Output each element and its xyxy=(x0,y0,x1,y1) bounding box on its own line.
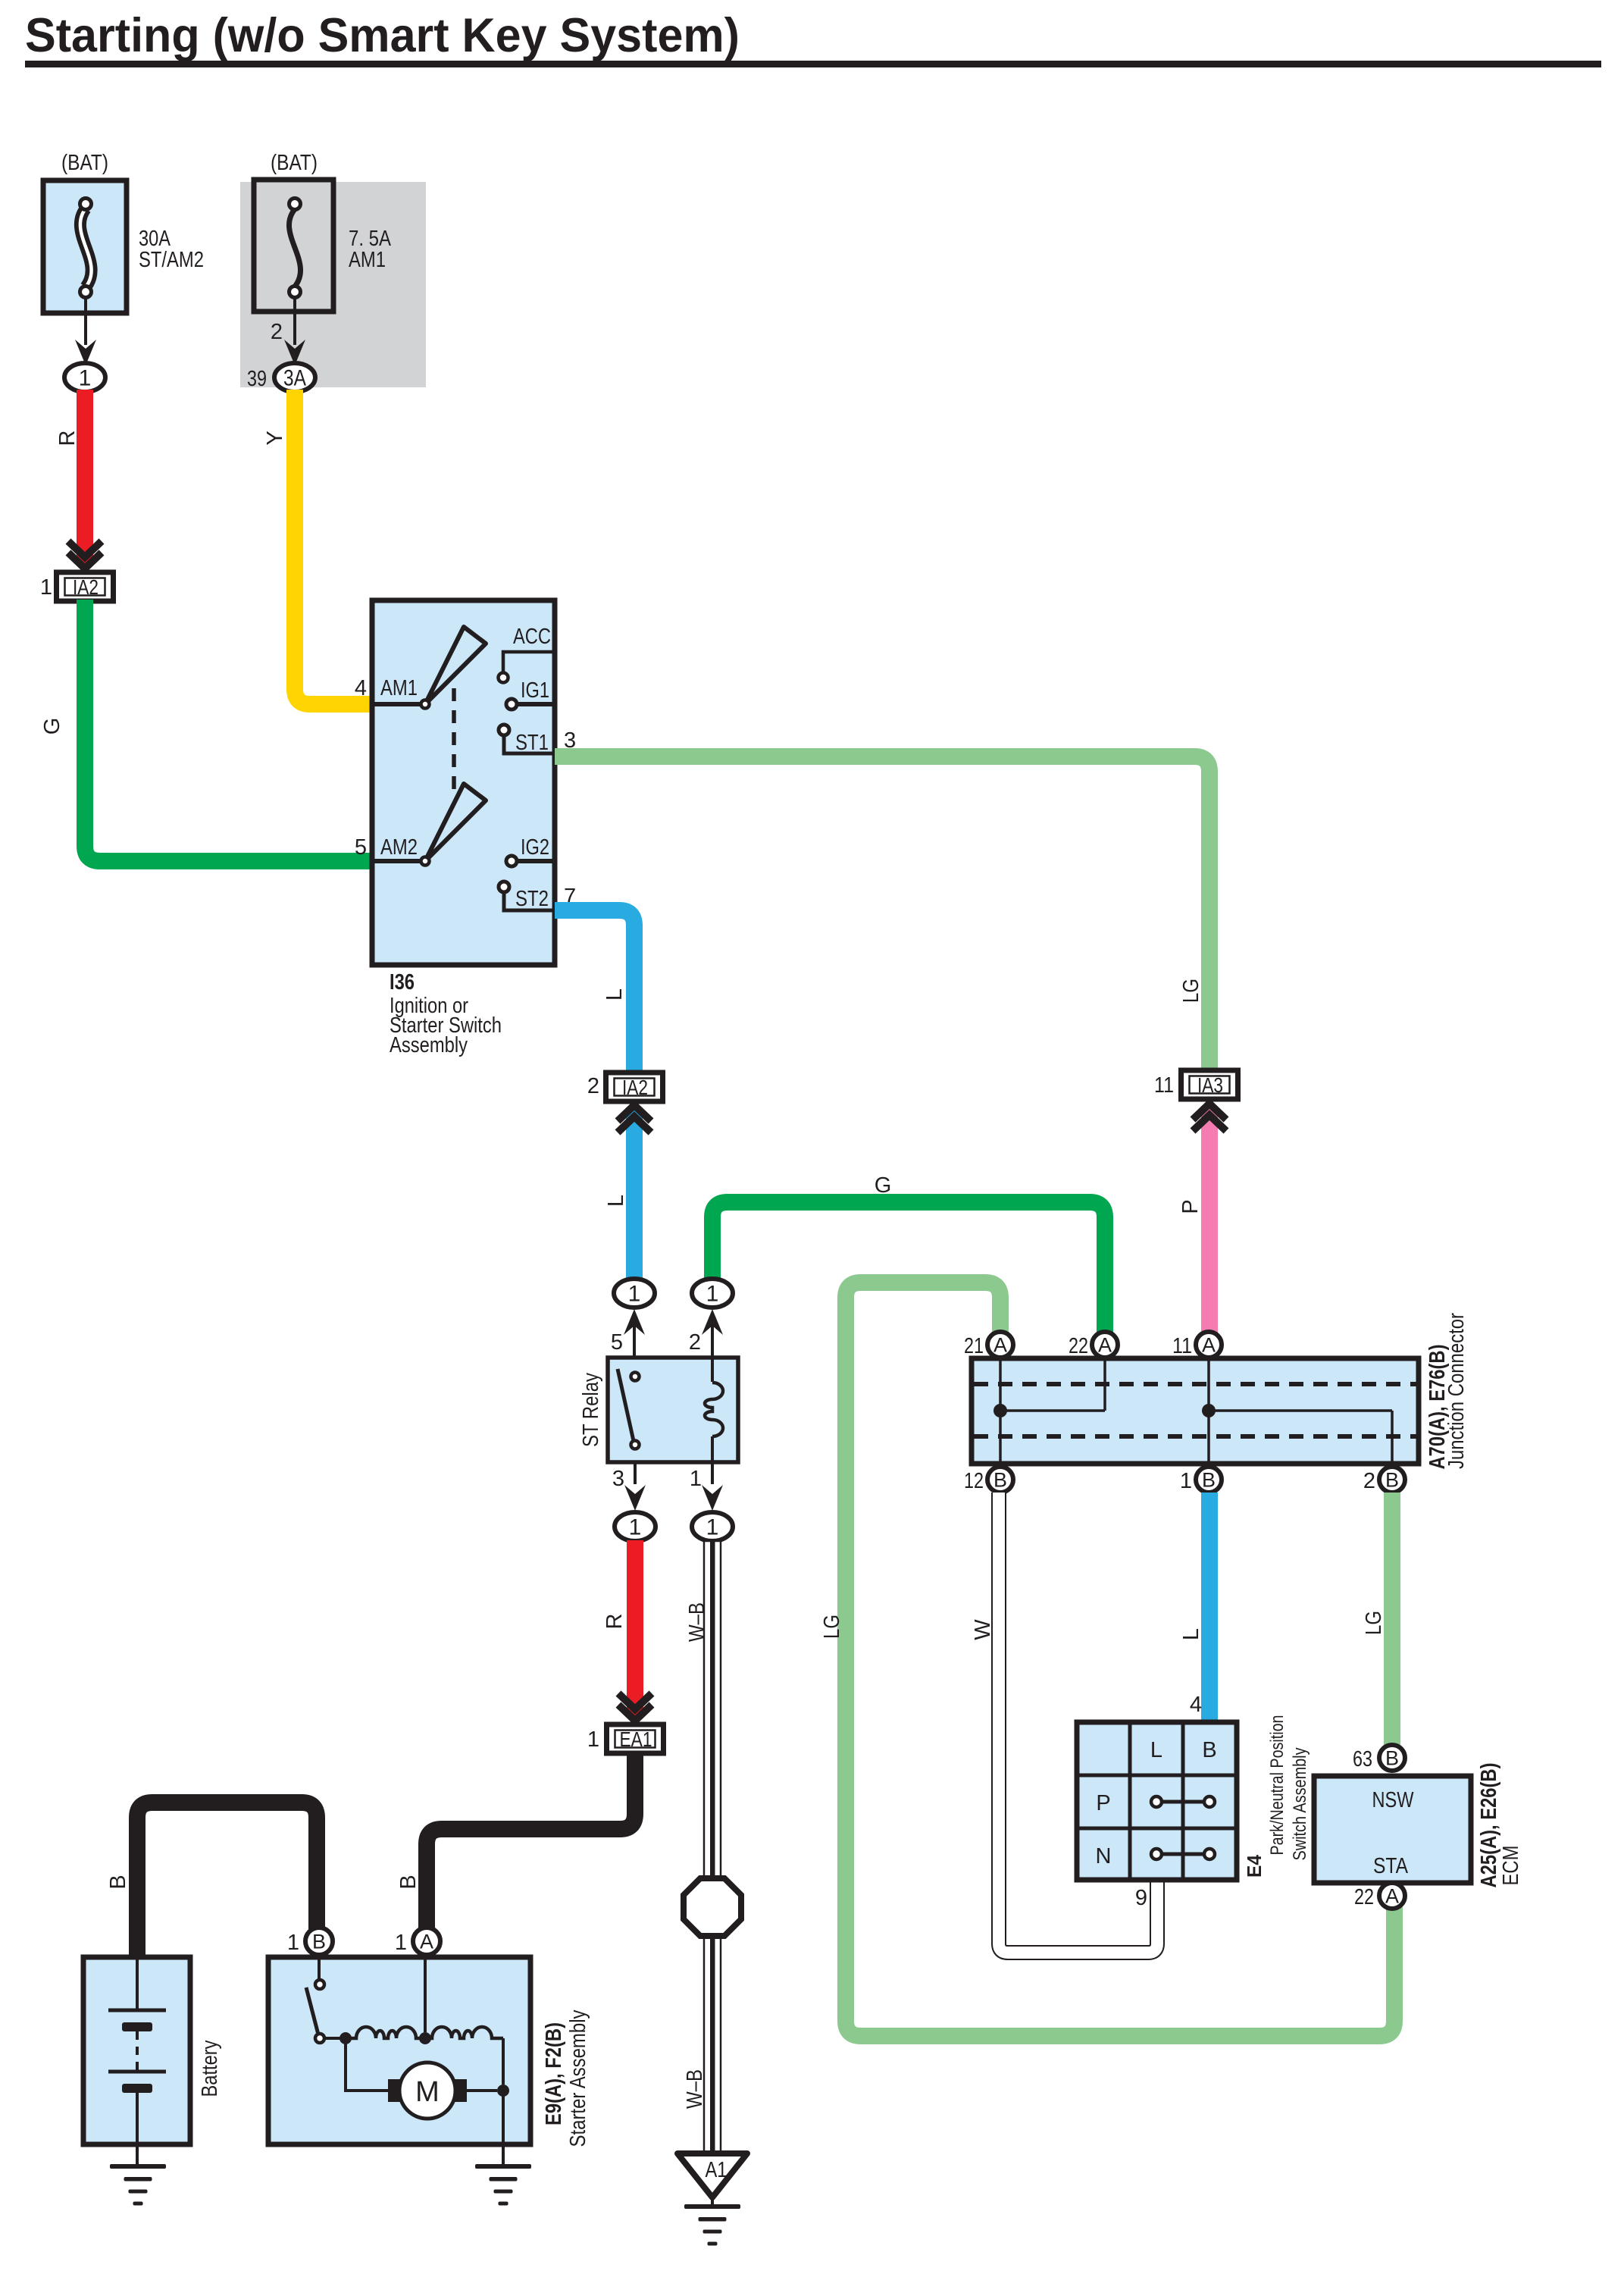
svg-text:22: 22 xyxy=(1354,1885,1374,1909)
svg-text:B: B xyxy=(396,1875,421,1889)
svg-text:E4: E4 xyxy=(1243,1855,1266,1878)
svg-text:A: A xyxy=(993,1334,1007,1357)
svg-text:L: L xyxy=(1179,1628,1203,1640)
svg-text:AM1: AM1 xyxy=(349,248,386,272)
svg-text:Junction Connector: Junction Connector xyxy=(1444,1313,1469,1469)
svg-text:1: 1 xyxy=(40,575,52,600)
svg-text:P: P xyxy=(1178,1199,1203,1214)
svg-text:21: 21 xyxy=(964,1334,984,1358)
svg-text:M: M xyxy=(415,2076,440,2108)
svg-text:2: 2 xyxy=(1363,1469,1375,1493)
svg-text:R: R xyxy=(55,431,80,446)
svg-text:B: B xyxy=(106,1875,130,1889)
svg-text:Starting (w/o Smart Key System: Starting (w/o Smart Key System) xyxy=(25,9,740,62)
svg-text:3: 3 xyxy=(612,1467,624,1491)
svg-text:A: A xyxy=(1098,1334,1112,1357)
svg-text:11: 11 xyxy=(1172,1334,1192,1358)
svg-text:LG: LG xyxy=(820,1615,844,1639)
svg-text:ST Relay: ST Relay xyxy=(579,1373,603,1447)
svg-text:AM1: AM1 xyxy=(380,676,418,700)
svg-text:P: P xyxy=(1096,1791,1110,1815)
svg-text:E9(A), F2(B): E9(A), F2(B) xyxy=(542,2022,566,2125)
svg-text:12: 12 xyxy=(964,1469,984,1493)
svg-text:Switch Assembly: Switch Assembly xyxy=(1290,1748,1310,1861)
svg-text:Y: Y xyxy=(263,431,287,445)
svg-text:(BAT): (BAT) xyxy=(271,151,318,175)
svg-text:A: A xyxy=(1385,1885,1399,1908)
svg-text:G: G xyxy=(875,1173,892,1198)
svg-text:Starter Assembly: Starter Assembly xyxy=(566,2009,590,2147)
svg-text:1: 1 xyxy=(79,366,92,391)
svg-text:39: 39 xyxy=(247,367,267,391)
svg-text:5: 5 xyxy=(355,835,367,860)
svg-text:IA2: IA2 xyxy=(73,575,99,599)
svg-text:L: L xyxy=(602,988,627,1001)
svg-text:STA: STA xyxy=(1373,1854,1409,1878)
svg-text:R: R xyxy=(602,1614,627,1630)
svg-text:11: 11 xyxy=(1154,1073,1174,1098)
svg-text:A: A xyxy=(420,1931,433,1953)
svg-text:1: 1 xyxy=(690,1467,702,1491)
svg-text:ACC: ACC xyxy=(513,625,551,649)
svg-text:1: 1 xyxy=(287,1931,299,1955)
svg-text:B: B xyxy=(312,1931,326,1953)
svg-text:1: 1 xyxy=(629,1515,642,1540)
svg-text:(BAT): (BAT) xyxy=(61,151,108,175)
svg-text:ECM: ECM xyxy=(1499,1846,1523,1886)
svg-text:1: 1 xyxy=(1180,1469,1192,1493)
svg-text:B: B xyxy=(1202,1469,1216,1492)
svg-text:A1: A1 xyxy=(706,2158,728,2182)
svg-text:IA3: IA3 xyxy=(1197,1073,1223,1097)
svg-text:63: 63 xyxy=(1353,1747,1372,1771)
svg-text:IG2: IG2 xyxy=(521,835,549,860)
svg-text:3A: 3A xyxy=(283,366,306,391)
svg-text:Park/Neutral Position: Park/Neutral Position xyxy=(1267,1715,1288,1856)
svg-text:1: 1 xyxy=(587,1727,599,1752)
svg-text:A: A xyxy=(1202,1334,1216,1357)
svg-text:Battery: Battery xyxy=(198,2040,222,2097)
svg-text:4: 4 xyxy=(1190,1693,1202,1717)
svg-text:1: 1 xyxy=(706,1282,719,1307)
svg-text:EA1: EA1 xyxy=(620,1727,652,1751)
svg-text:1: 1 xyxy=(395,1931,407,1955)
svg-text:4: 4 xyxy=(355,676,367,700)
svg-text:ST1: ST1 xyxy=(515,731,549,755)
svg-text:W–B: W–B xyxy=(685,1602,709,1642)
svg-text:Assembly: Assembly xyxy=(390,1033,468,1057)
svg-text:1: 1 xyxy=(628,1282,641,1307)
svg-text:W–B: W–B xyxy=(683,2069,707,2109)
svg-text:LG: LG xyxy=(1362,1611,1386,1635)
svg-text:LG: LG xyxy=(1179,979,1203,1003)
svg-text:2: 2 xyxy=(689,1330,701,1355)
svg-text:5: 5 xyxy=(611,1330,623,1355)
svg-text:22: 22 xyxy=(1069,1334,1088,1358)
svg-text:B: B xyxy=(993,1469,1007,1492)
svg-text:ST2: ST2 xyxy=(515,887,549,911)
svg-text:2: 2 xyxy=(271,320,283,344)
svg-text:NSW: NSW xyxy=(1372,1788,1414,1812)
svg-text:B: B xyxy=(1385,1469,1399,1492)
svg-text:I36: I36 xyxy=(390,970,415,994)
svg-text:B: B xyxy=(1385,1747,1399,1770)
svg-text:AM2: AM2 xyxy=(380,835,418,860)
svg-text:B: B xyxy=(1202,1738,1216,1762)
svg-text:ST/AM2: ST/AM2 xyxy=(139,248,204,272)
svg-text:L: L xyxy=(1150,1738,1162,1762)
svg-text:2: 2 xyxy=(587,1074,599,1098)
svg-text:IG1: IG1 xyxy=(521,678,549,703)
svg-text:N: N xyxy=(1096,1844,1112,1868)
svg-text:9: 9 xyxy=(1135,1886,1147,1910)
svg-text:W: W xyxy=(971,1619,995,1640)
svg-text:1: 1 xyxy=(706,1515,719,1540)
svg-text:L: L xyxy=(604,1195,628,1207)
svg-text:G: G xyxy=(40,718,64,735)
svg-text:IA2: IA2 xyxy=(622,1076,648,1099)
svg-text:A25(A), E26(B): A25(A), E26(B) xyxy=(1477,1763,1501,1888)
